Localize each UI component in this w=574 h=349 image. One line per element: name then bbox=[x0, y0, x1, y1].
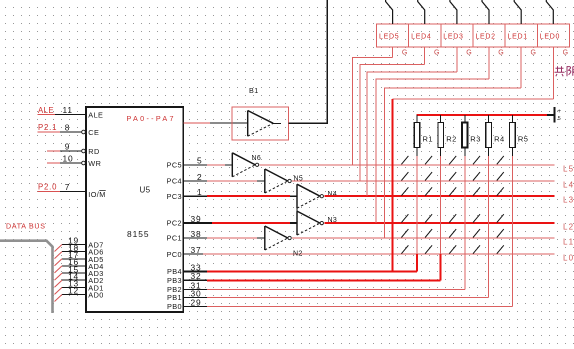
svg-text:LED0: LED0 bbox=[540, 34, 560, 41]
wire LED5 cathode to row L5 bbox=[353, 58, 393, 165]
svg-text:38: 38 bbox=[191, 229, 202, 239]
wire segment lines above LED5 bbox=[386, 0, 393, 24]
U5 pin 17 AD5 bbox=[62, 250, 104, 264]
svg-text:10: 10 bbox=[63, 154, 74, 164]
bus entry AD5 bbox=[55, 259, 63, 266]
wire keypad column 3 bbox=[464, 148, 466, 290]
U5 pin 8 CE (active low bubble) bbox=[60, 123, 99, 137]
svg-text:RD: RD bbox=[88, 147, 99, 156]
svg-text:11: 11 bbox=[63, 105, 73, 115]
U5 pin 29 PB0 bbox=[167, 297, 207, 311]
svg-text:R5: R5 bbox=[518, 135, 529, 144]
wire row L2 from N3 (bold) bbox=[324, 222, 554, 224]
bus entry AD0 bbox=[55, 295, 63, 302]
inverter N6 bbox=[232, 153, 261, 177]
svg-text:R2: R2 bbox=[446, 135, 457, 144]
inverter N3 bbox=[297, 211, 337, 235]
wire row L4 from N5 bbox=[292, 180, 554, 182]
U5 pin 2 PC4 bbox=[167, 172, 207, 186]
U5 pin 1 PC3 bbox=[167, 187, 207, 201]
svg-text:G: G bbox=[531, 50, 536, 57]
U5 pin 5 PC5 bbox=[167, 156, 207, 170]
svg-text:DATA BUS: DATA BUS bbox=[6, 223, 46, 231]
wire PC2 to inverter input bbox=[212, 222, 297, 224]
wire to RD bbox=[47, 150, 60, 152]
pin G of LED1 bbox=[521, 47, 536, 88]
wire LED0 cathode across to bold drop bbox=[392, 98, 553, 100]
wire PB2 to keypad column bbox=[207, 289, 465, 291]
power +5V rail bbox=[416, 107, 561, 123]
U5 pin 10 WR (bubble) bbox=[60, 154, 101, 168]
wire segment lines above LED3 bbox=[450, 0, 457, 24]
U5 pin 18 AD6 bbox=[62, 243, 104, 257]
pin G of LED4 bbox=[425, 47, 440, 65]
svg-text:L1: L1 bbox=[563, 238, 574, 247]
pin G of LED2 bbox=[489, 47, 504, 79]
svg-text:LED3: LED3 bbox=[443, 34, 463, 41]
svg-text:LED1: LED1 bbox=[508, 34, 528, 41]
svg-text:2: 2 bbox=[197, 172, 202, 182]
resistor R1 bbox=[414, 115, 433, 148]
bus entry AD4 bbox=[55, 266, 63, 273]
wire PC3 to inverter input bbox=[207, 195, 297, 197]
svg-text:PC0: PC0 bbox=[167, 250, 182, 259]
resistor R4 bbox=[486, 115, 505, 148]
svg-text:P2.1: P2.1 bbox=[38, 123, 57, 132]
wire PB3 to keypad column bbox=[207, 279, 441, 281]
wire row L5 from N6 bbox=[260, 164, 555, 166]
wire segment lines above LED0 bbox=[546, 0, 553, 24]
svg-text:37: 37 bbox=[191, 245, 202, 255]
pin G of LED0 bbox=[553, 47, 568, 99]
U5 pin 13 AD1 bbox=[62, 279, 104, 293]
wire PC5 to inverter input bbox=[207, 164, 233, 166]
keypad switch matrix 6 rows x 5 cols bbox=[401, 156, 503, 254]
bus entry AD3 bbox=[55, 273, 63, 280]
U5 pin 9 RD (bubble) bbox=[60, 142, 100, 156]
svg-text:L0: L0 bbox=[563, 254, 574, 263]
svg-text:PB3: PB3 bbox=[167, 276, 182, 285]
wire PB1 to keypad column bbox=[207, 297, 489, 299]
svg-text:B1: B1 bbox=[249, 86, 259, 95]
svg-text:N2: N2 bbox=[293, 251, 303, 258]
svg-text:G: G bbox=[466, 50, 471, 57]
svg-text:PC3: PC3 bbox=[167, 192, 182, 201]
wire LED4 cathode to row L4 bbox=[360, 65, 425, 182]
LED display LED5 bbox=[377, 24, 409, 47]
U5 pin 7 IO/M bbox=[60, 182, 106, 199]
U5 pin 15 AD3 bbox=[62, 264, 104, 278]
svg-text:PC1: PC1 bbox=[167, 234, 182, 243]
wire B1 output up bbox=[289, 0, 328, 123]
wire segment lines above LED1 bbox=[514, 0, 521, 24]
svg-text:7: 7 bbox=[65, 182, 70, 192]
svg-text:5: 5 bbox=[197, 156, 202, 166]
U5 pin 32 PB3 bbox=[167, 271, 207, 285]
bus entry AD6 bbox=[55, 252, 63, 259]
wire keypad column 1 bbox=[416, 148, 418, 272]
svg-text:PB4: PB4 bbox=[167, 267, 182, 276]
IC U5 8155 body bbox=[86, 107, 183, 312]
inverter N2 bbox=[265, 226, 303, 258]
svg-text:ALE: ALE bbox=[88, 111, 103, 120]
bus entry AD1 bbox=[55, 287, 63, 294]
resistor R5 bbox=[510, 115, 529, 148]
U5 pin 12 AD0 bbox=[62, 286, 104, 300]
svg-text:PB1: PB1 bbox=[167, 293, 182, 302]
U5 pin 33 PB4 bbox=[167, 262, 207, 276]
U5 pin 31 PB2 bbox=[167, 280, 207, 294]
svg-text:R4: R4 bbox=[494, 135, 505, 144]
svg-text:G: G bbox=[402, 50, 407, 57]
svg-text:L4: L4 bbox=[563, 181, 574, 190]
svg-text:1: 1 bbox=[197, 187, 202, 197]
wire keypad column 4 bbox=[488, 148, 490, 298]
U5 pin 11 ALE bbox=[55, 105, 103, 120]
U5 pin 37 PC0 bbox=[167, 245, 203, 259]
svg-text:P2.0: P2.0 bbox=[38, 183, 57, 192]
LED display LED2 bbox=[473, 24, 505, 47]
wire LED1 cathode to row L1 bbox=[384, 88, 521, 238]
wire PB0 to keypad column bbox=[207, 306, 512, 308]
svg-text:8: 8 bbox=[65, 123, 70, 133]
pin G of LED5 bbox=[393, 47, 408, 58]
wire to WR bbox=[47, 162, 60, 164]
svg-text:L5: L5 bbox=[563, 164, 574, 173]
U5 pin 39 PC2 bbox=[167, 214, 212, 228]
svg-text:29: 29 bbox=[191, 297, 202, 307]
svg-text:U5: U5 bbox=[140, 185, 151, 194]
svg-text:AD0: AD0 bbox=[88, 291, 103, 300]
wire keypad column 5 bbox=[511, 148, 513, 307]
svg-text:L2: L2 bbox=[563, 223, 574, 232]
U5 pin 16 AD4 bbox=[62, 257, 104, 271]
svg-text:12: 12 bbox=[68, 286, 79, 296]
wire PA0--PA7 to B1 bbox=[183, 122, 247, 124]
wire segment lines above LED4 bbox=[418, 0, 425, 24]
wire PC1 to inverter input bbox=[207, 237, 265, 239]
wire net P2.0 bbox=[38, 183, 61, 192]
pin G of LED3 bbox=[457, 47, 472, 72]
svg-text:LED2: LED2 bbox=[475, 34, 495, 41]
svg-text:ALE: ALE bbox=[38, 106, 54, 115]
svg-text:+: + bbox=[557, 108, 561, 115]
svg-text:G: G bbox=[498, 50, 503, 57]
wire LED2 cathode to row L2 bbox=[376, 79, 489, 223]
bus entry AD2 bbox=[55, 280, 63, 287]
svg-text:CE: CE bbox=[88, 128, 99, 137]
LED display LED1 bbox=[505, 24, 537, 47]
svg-text:LED4: LED4 bbox=[411, 34, 431, 41]
svg-text:PC4: PC4 bbox=[167, 177, 182, 186]
wire N4 to N3 left edge bbox=[296, 208, 298, 211]
LED display LED0 bbox=[537, 24, 569, 47]
bus entry AD7 bbox=[55, 245, 63, 252]
svg-text:PC2: PC2 bbox=[167, 219, 182, 228]
wire keypad column 2 bbox=[440, 148, 442, 281]
svg-text:8155: 8155 bbox=[127, 229, 149, 239]
svg-text:G: G bbox=[434, 50, 439, 57]
svg-text:WR: WR bbox=[88, 159, 101, 168]
annotation common cathode (drawn glyphs) bbox=[555, 66, 574, 76]
wire PC4 to inverter input bbox=[207, 180, 265, 182]
svg-text:R1: R1 bbox=[423, 135, 434, 144]
U5 pin 19 AD7 bbox=[62, 236, 104, 250]
wire net ALE bbox=[38, 106, 56, 115]
wire row L3 from N4 (bold) bbox=[324, 195, 554, 197]
U5 pin 30 PB1 bbox=[167, 288, 207, 302]
LED display LED4 bbox=[409, 24, 441, 47]
svg-text:G: G bbox=[563, 50, 568, 57]
wire row L1 from N2 bbox=[292, 237, 554, 239]
wire LED0 drop to PB4 (bold) bbox=[391, 99, 393, 272]
svg-text:LED5: LED5 bbox=[379, 34, 399, 41]
svg-text:39: 39 bbox=[191, 214, 202, 224]
wire LED3 cathode to row L3 bbox=[367, 72, 457, 196]
data bus line bbox=[0, 241, 53, 313]
wire segment lines above LED2 bbox=[482, 0, 489, 24]
U5 pin 38 PC1 bbox=[167, 229, 207, 243]
svg-text:PA0--PA7: PA0--PA7 bbox=[127, 114, 176, 123]
resistor R3 bbox=[462, 115, 481, 148]
svg-text:5: 5 bbox=[558, 116, 561, 122]
wire PB4 to keypad column bbox=[207, 271, 417, 273]
buffer B1 bbox=[232, 86, 289, 140]
svg-text:PC5: PC5 bbox=[167, 160, 182, 169]
svg-text:IO/M: IO/M bbox=[88, 190, 105, 199]
svg-text:9: 9 bbox=[65, 142, 70, 152]
wire row L0 from PC0 bbox=[203, 253, 555, 255]
LED display LED3 bbox=[441, 24, 473, 47]
inverter N4 bbox=[297, 184, 337, 208]
wire net P2.1 bbox=[38, 123, 61, 132]
svg-text:PB0: PB0 bbox=[167, 302, 182, 311]
inverter N5 bbox=[265, 169, 303, 193]
U5 pin 14 AD2 bbox=[62, 271, 104, 285]
svg-text:N6: N6 bbox=[252, 155, 262, 162]
svg-text:R3: R3 bbox=[470, 135, 481, 144]
svg-text:L3: L3 bbox=[563, 196, 574, 205]
resistor R2 bbox=[438, 115, 457, 148]
